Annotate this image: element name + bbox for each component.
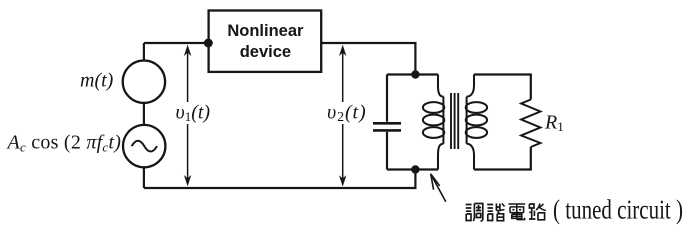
arrow v2(t) — [328, 45, 366, 187]
arrow pointer to tuned circuit — [431, 174, 446, 202]
transformer T1 secondary winding — [466, 75, 487, 170]
hanzi 電 — [508, 204, 525, 220]
svg-text:υ1(t): υ1(t) — [176, 101, 211, 124]
resistor R1 zigzag — [521, 100, 540, 148]
svg-text:Ac cos (2 πfct): Ac cos (2 πfct) — [6, 132, 122, 155]
wire between sources — [143, 103, 145, 125]
wire tank bottom — [387, 168, 438, 170]
wire top rail left (source to box) — [144, 42, 209, 44]
svg-text:device: device — [240, 43, 291, 61]
svg-text:( tuned circuit ): ( tuned circuit ) — [553, 195, 683, 225]
source V1 m(t) circle — [123, 60, 165, 102]
transformer T1 primary winding — [423, 75, 444, 170]
wire top rail right (box to tank) — [321, 43, 415, 75]
source V2 carrier circle — [123, 125, 165, 167]
svg-text:Nonlinear: Nonlinear — [227, 22, 304, 40]
wire tank top — [387, 73, 438, 75]
capacitor C1 plates — [373, 123, 401, 130]
transformer core — [451, 93, 458, 149]
hanzi 調 — [466, 204, 483, 222]
svg-text:R1: R1 — [544, 111, 564, 134]
wire capacitor branch — [386, 75, 388, 170]
wire source branch bottom — [143, 167, 145, 188]
sine symbol — [132, 141, 157, 152]
wire source branch top — [143, 43, 145, 61]
junction node B (tank top) — [411, 70, 419, 78]
junction node C (tank bottom) — [411, 165, 419, 173]
hanzi 諧 — [487, 204, 504, 221]
hanzi 路 — [529, 204, 546, 220]
junction node A (box input) — [204, 39, 213, 48]
arrow v1(t) — [174, 45, 211, 187]
label Nonlinear device — [227, 22, 304, 61]
svg-text:υ2(t): υ2(t) — [327, 101, 367, 125]
wire secondary loop — [474, 75, 531, 170]
nonlinear device box U1 — [209, 11, 322, 72]
svg-text:m(t): m(t) — [80, 69, 114, 91]
wire bottom rail — [144, 170, 416, 189]
